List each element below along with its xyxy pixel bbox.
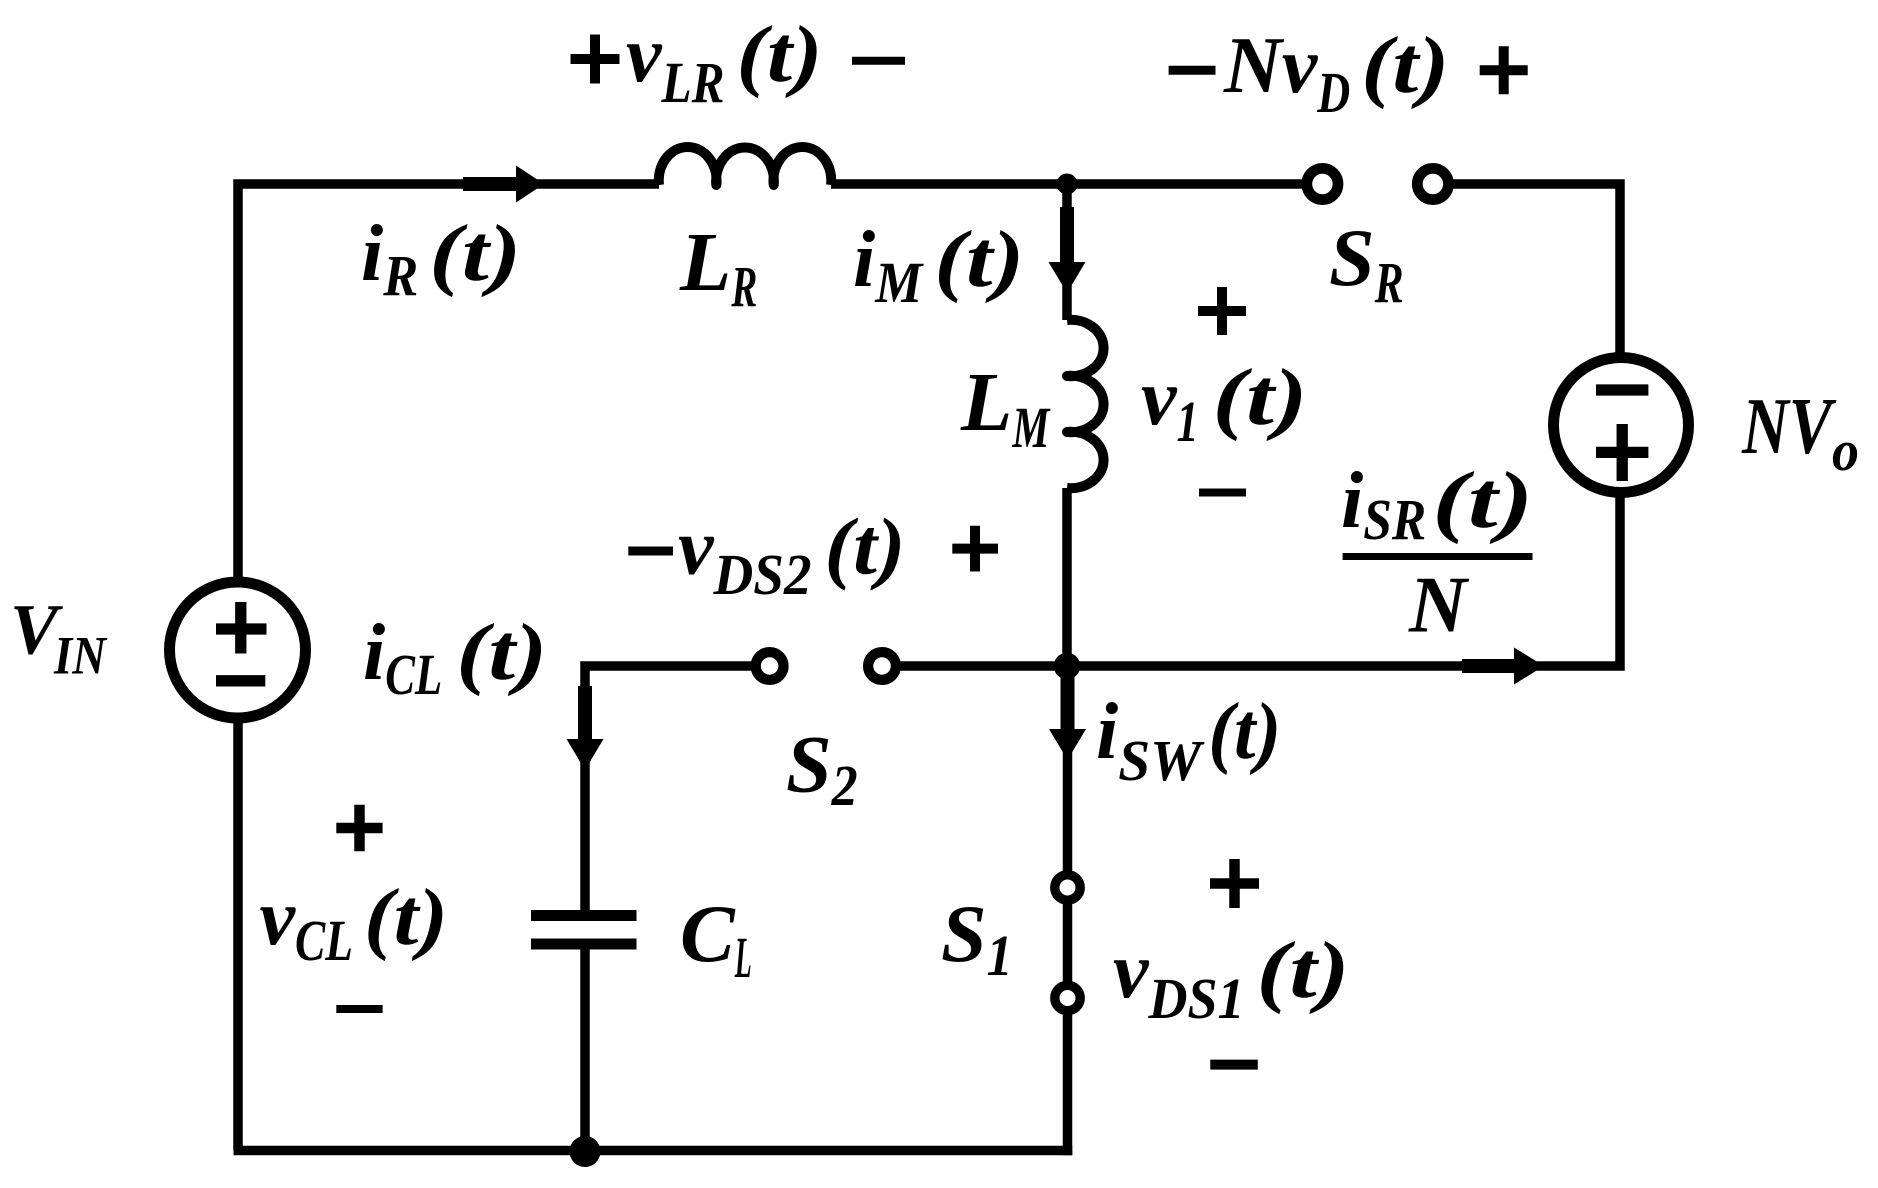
wire junction down to S1 <box>1063 666 1073 873</box>
wire left vertical below VIN <box>233 722 243 1151</box>
label vDS1(t) plus sign <box>1210 859 1259 908</box>
label +vLR(t)- minus sign <box>852 57 905 65</box>
arrow iSR on mid horizontal wire <box>1462 648 1544 685</box>
label +vLR(t)- plus sign <box>571 35 620 84</box>
label fraction bar <box>1343 553 1533 560</box>
label vDS1(t) minus sign <box>1210 1060 1258 1070</box>
label -NvD(t)+ minus sign <box>1169 66 1216 75</box>
capacitor CL <box>531 916 637 945</box>
node A: top junction dot <box>1057 174 1078 195</box>
wire CL bottom to bottom wire <box>580 950 590 1151</box>
node C: bottom junction dot <box>570 1136 601 1167</box>
switch SR <box>1307 168 1338 199</box>
switch S2 <box>756 652 784 680</box>
wire middle vertical LM to mid node <box>1062 488 1072 666</box>
voltage source NVo <box>1554 358 1689 493</box>
label -vDS2(t)+ plus sign <box>952 526 998 572</box>
wire top from LR to SR <box>831 179 1305 189</box>
label -vDS2(t)+ minus sign <box>628 547 673 556</box>
wire S2 left circle to CL branch corner, down to capacitor <box>585 666 752 910</box>
inductor LM <box>1067 320 1104 488</box>
label vCL(t) minus sign <box>336 1005 382 1013</box>
arrow iCL on CL branch <box>567 686 604 770</box>
switch S1 <box>1055 875 1080 900</box>
wire right vertical below NVo <box>1067 497 1625 671</box>
wire between S1 circles <box>1063 902 1073 983</box>
arrow iSW on S1 branch <box>1049 677 1086 760</box>
voltage source VIN <box>170 582 306 718</box>
inductor LR <box>659 147 832 185</box>
arrow iR on top wire <box>463 166 544 203</box>
label vCL(t) plus sign <box>336 805 382 851</box>
svg-text:v1(t): v1(t) <box>1141 354 1308 454</box>
wire below S1 to bottom <box>1063 1013 1073 1155</box>
wire bottom horizontal <box>234 1146 1073 1156</box>
wire S2 right circle to junction <box>900 661 1068 671</box>
svg-text:N: N <box>1408 562 1470 650</box>
label v1(t) minus sign <box>1199 489 1246 497</box>
wire top-left loop: left vertical + top horizontal <box>238 184 659 578</box>
node B: mid junction dot <box>1054 653 1081 680</box>
label -NvD(t)+ plus sign <box>1480 46 1528 94</box>
wire middle vertical node to LM <box>1062 184 1072 320</box>
wire top-right corner from SR to NVo <box>1451 179 1625 354</box>
arrow iM on middle vertical <box>1049 207 1086 293</box>
label v1(t) plus sign <box>1198 287 1246 335</box>
